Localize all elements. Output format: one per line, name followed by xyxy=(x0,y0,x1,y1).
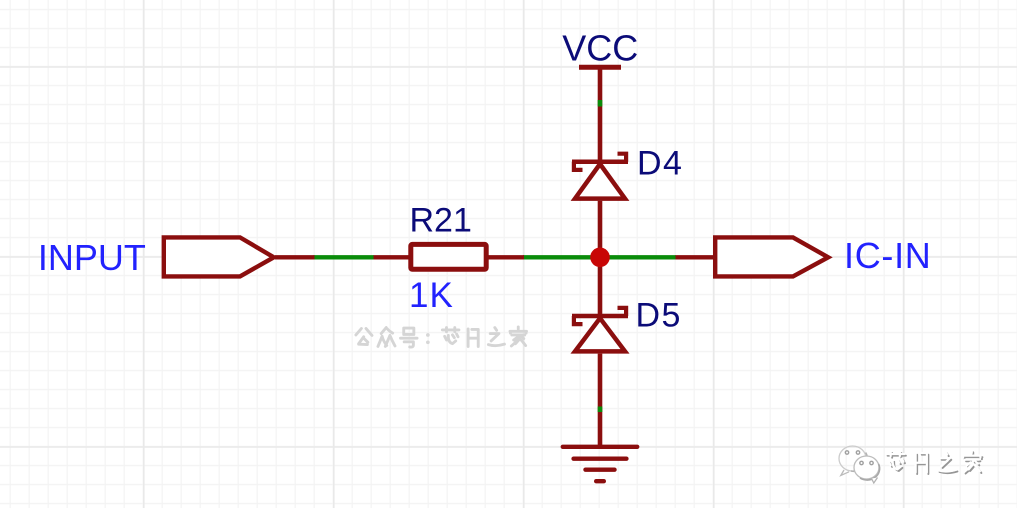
svg-text:D4: D4 xyxy=(637,145,683,183)
svg-text:IC-IN: IC-IN xyxy=(844,235,932,276)
svg-text:D5: D5 xyxy=(636,297,682,335)
svg-text:1K: 1K xyxy=(409,276,454,315)
svg-text:R21: R21 xyxy=(410,202,472,240)
svg-text:INPUT: INPUT xyxy=(38,237,146,278)
svg-text:VCC: VCC xyxy=(562,28,638,69)
